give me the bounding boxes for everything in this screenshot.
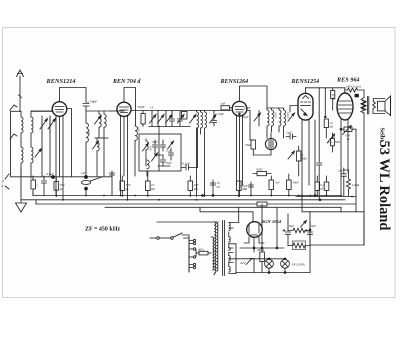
svg-text:42V: 42V	[240, 261, 246, 265]
page border	[3, 28, 396, 298]
svg-text:8µF: 8µF	[311, 224, 316, 228]
svg-text:50nF: 50nF	[293, 181, 300, 185]
svg-text:nF: nF	[217, 185, 221, 189]
coil 100 mixer grid	[147, 160, 149, 176]
svg-text:100: 100	[87, 130, 91, 135]
long bus lines	[21, 192, 356, 207]
mains wire upper	[157, 207, 253, 222]
rails right of tube4	[306, 88, 345, 201]
heater wiring + lamps	[236, 247, 310, 273]
tuning caps with arrows	[35, 116, 56, 176]
caps 1uF bottom	[51, 175, 102, 195]
svg-text:2µF: 2µF	[286, 131, 293, 135]
verticals from bus to power	[250, 204, 288, 273]
svg-text:1µF: 1µF	[338, 169, 343, 173]
caps under IF	[249, 174, 292, 196]
svg-text:MΩ: MΩ	[334, 140, 340, 144]
svg-text:100: 100	[137, 127, 141, 132]
bandfilter box	[139, 134, 181, 171]
svg-text:53 WL Roland: 53 WL Roland	[376, 141, 392, 231]
bottom right loop	[296, 197, 364, 246]
1uF cap + cathode zigzag	[341, 168, 350, 197]
svg-text:7,25: 7,25	[166, 150, 171, 153]
50 Ohm resistor in bus	[257, 202, 267, 206]
smoothing resistor zigzag	[288, 228, 310, 272]
svg-text:AFu: AFu	[197, 248, 204, 252]
svg-text:REN 704 d: REN 704 d	[112, 79, 141, 85]
svg-text:50Ω: 50Ω	[245, 143, 251, 147]
svg-text:8µF: 8µF	[289, 224, 294, 228]
tube REN704d	[117, 88, 136, 200]
rectifier tube RGN1064	[244, 222, 264, 248]
resistor 750	[54, 177, 59, 197]
svg-text:5nF: 5nF	[275, 181, 280, 185]
resistors under REN704	[110, 171, 151, 197]
svg-text:1010: 1010	[286, 112, 290, 119]
svg-text:RENS1214: RENS1214	[46, 78, 76, 85]
grid coil 100	[86, 111, 88, 176]
tube RES964	[337, 88, 353, 197]
bottom left components	[5, 169, 112, 196]
svg-text:MΩ: MΩ	[301, 157, 307, 161]
svg-text:35pF: 35pF	[242, 115, 249, 119]
svg-text:50pF: 50pF	[166, 162, 172, 165]
svg-text:µF: µF	[321, 187, 325, 191]
osc section trimmers	[141, 111, 190, 172]
IF transformer 2	[254, 108, 295, 138]
svg-text:13: 13	[150, 106, 154, 110]
svg-text:10nF: 10nF	[244, 106, 251, 110]
svg-text:RENS1264: RENS1264	[220, 79, 249, 85]
svg-text:RGN 1064: RGN 1064	[261, 219, 282, 224]
plate resistor zigzag top	[345, 88, 364, 98]
tube RENS1264	[232, 86, 267, 197]
electrolytic caps 8uF	[283, 222, 313, 246]
svg-text:380Ω: 380Ω	[257, 248, 265, 252]
mixer top wire with 50pF cap	[131, 110, 231, 112]
svg-text:1nF: 1nF	[220, 102, 226, 106]
50 Ohm + tuning circle	[250, 133, 277, 155]
svg-text:30pF: 30pF	[152, 141, 158, 144]
svg-text:90pF: 90pF	[90, 100, 98, 104]
fuse AFu	[196, 250, 211, 257]
output transformer	[361, 97, 369, 246]
mains switch	[150, 233, 189, 272]
svg-text:1µF: 1µF	[81, 171, 86, 175]
svg-text:RENS1254: RENS1254	[291, 79, 320, 85]
2uF cap	[286, 134, 296, 139]
voltage selector taps	[189, 239, 196, 268]
svg-text:1010: 1010	[274, 112, 278, 119]
50k resistor	[331, 88, 335, 110]
svg-text:10pF: 10pF	[218, 112, 225, 116]
secondary coil L2	[31, 111, 53, 178]
capacitor 90pF	[83, 104, 89, 112]
ground	[16, 192, 27, 212]
svg-text:100: 100	[149, 146, 153, 151]
5000 resistor	[253, 172, 271, 176]
power transformer	[211, 207, 239, 275]
tube RENS1254	[290, 88, 313, 197]
coil at 135	[110, 111, 137, 176]
junction dots	[55, 195, 353, 201]
speaker	[373, 96, 391, 116]
volume pot 100 Ohm	[340, 126, 356, 205]
resistor + 1.5M arrow	[324, 119, 334, 152]
antenna coil L1	[10, 105, 23, 192]
svg-text:RES 964: RES 964	[336, 77, 360, 84]
bottom resistors output	[315, 176, 329, 196]
1nF resistor box	[221, 106, 231, 110]
svg-text:ZF = 450 kHz: ZF = 450 kHz	[85, 227, 120, 233]
0.1uF cap on line	[181, 128, 198, 170]
anode blob	[355, 94, 358, 97]
svg-text:50pF: 50pF	[138, 105, 146, 109]
svg-text:5000: 5000	[256, 168, 263, 172]
tube RENS1214	[31, 88, 86, 200]
grid leak arrows	[288, 146, 301, 176]
antenna	[17, 70, 24, 111]
bandfilter 1 coils	[86, 111, 110, 176]
resistors bottom mixer	[188, 176, 241, 197]
caps mid right	[317, 160, 322, 200]
10nF cap before tube3	[212, 111, 217, 127]
oscillator coils	[190, 111, 217, 197]
